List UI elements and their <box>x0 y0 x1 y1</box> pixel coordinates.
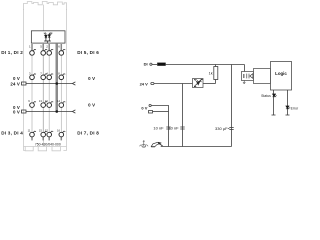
svg-text:330 µF: 330 µF <box>215 126 228 131</box>
wire column 2 <box>42 56 44 75</box>
module top profile <box>24 2 67 11</box>
row 1 terminals <box>30 51 35 56</box>
svg-text:10 nF: 10 nF <box>168 126 179 131</box>
24V terminal <box>151 82 154 84</box>
svg-text:0 V: 0 V <box>13 110 20 115</box>
DI input terminal <box>150 63 152 65</box>
schematic terminal labels DI / 24V / 0V <box>140 62 149 111</box>
wire DI terminal to resistor <box>152 64 157 66</box>
row 4 terminals <box>30 132 35 137</box>
svg-text:24 V: 24 V <box>140 82 149 87</box>
svg-text:24 V: 24 V <box>10 82 20 87</box>
svg-text:Status: Status <box>261 94 271 98</box>
module right edge <box>66 9 68 147</box>
svg-text:1k: 1k <box>209 71 213 75</box>
svg-text:0 V: 0 V <box>88 103 95 108</box>
0V circle terminal <box>149 104 151 106</box>
module middle separator <box>43 5 45 147</box>
bottom earth rail <box>161 146 232 148</box>
row 3 terminals <box>30 103 35 108</box>
wire 330uF line <box>231 65 233 147</box>
svg-text:14: 14 <box>57 99 60 103</box>
DIN rail contact symbol <box>151 142 162 147</box>
svg-text:13: 13 <box>39 99 42 103</box>
wire column 1 <box>31 56 33 75</box>
svg-text:11: 11 <box>28 129 31 133</box>
pin below opto <box>243 81 246 84</box>
svg-text:10: 10 <box>45 99 48 103</box>
svg-text:750-430/040-000: 750-430/040-000 <box>35 143 61 147</box>
value labels 1k / 10nF / 330uF <box>153 71 228 131</box>
svg-text:12: 12 <box>45 129 48 133</box>
wire: top line down to opto2 <box>244 65 246 72</box>
row 2 terminals <box>30 75 35 80</box>
0V rect terminal <box>149 111 153 114</box>
svg-text:0 V: 0 V <box>141 105 147 110</box>
svg-text:16: 16 <box>57 129 60 133</box>
wire 0V upper <box>151 106 168 147</box>
capacitor 330uF <box>228 128 234 130</box>
module bottom profile with feet <box>24 146 67 148</box>
junction dot row2 <box>55 82 58 85</box>
svg-text:DI 7, DI 8: DI 7, DI 8 <box>77 131 99 136</box>
svg-text:DI 3, DI 4: DI 3, DI 4 <box>1 131 23 136</box>
resistor 1k leads <box>215 65 217 67</box>
wire from input resistor across top <box>166 64 245 66</box>
earth symbol <box>140 140 149 147</box>
optocoupler field side <box>193 79 204 88</box>
svg-text:15: 15 <box>39 129 42 133</box>
junction dot row3 <box>55 110 58 113</box>
logic input tab <box>254 69 271 84</box>
svg-text:0 V: 0 V <box>13 76 20 81</box>
error LED symbol <box>286 106 290 109</box>
svg-text:10 nF: 10 nF <box>153 126 164 131</box>
module left edge <box>23 9 25 147</box>
input series resistor (filled) <box>157 63 166 66</box>
svg-text:Logic: Logic <box>275 71 287 76</box>
channel labels DI 1..DI 8 <box>1 50 99 135</box>
logic box <box>271 62 292 91</box>
wire column 3 <box>48 56 50 75</box>
optocoupler bus side <box>242 72 254 84</box>
wire 0V lower <box>153 111 169 113</box>
wire column 4 <box>60 56 62 75</box>
error LED line <box>286 90 290 115</box>
svg-text:Error: Error <box>291 106 299 110</box>
status LED line <box>272 90 276 115</box>
LED symbols inside box <box>44 32 53 43</box>
supply labels 0V / 24V <box>10 76 95 115</box>
svg-text:DI: DI <box>144 62 148 67</box>
capacitor 10nF #1 <box>166 127 170 129</box>
capacitor 10nF #2 <box>180 127 184 129</box>
status LED symbol <box>273 94 277 97</box>
wire 24V junction down <box>182 84 184 147</box>
wire 24V to opto1 <box>154 83 193 85</box>
svg-text:DI 1, DI 2: DI 1, DI 2 <box>1 50 23 55</box>
svg-text:0 V: 0 V <box>88 76 95 81</box>
wire opto1 to 1k bottom <box>203 83 216 85</box>
svg-text:DI 5, DI 6: DI 5, DI 6 <box>77 50 99 55</box>
resistor 1k body <box>214 67 218 80</box>
